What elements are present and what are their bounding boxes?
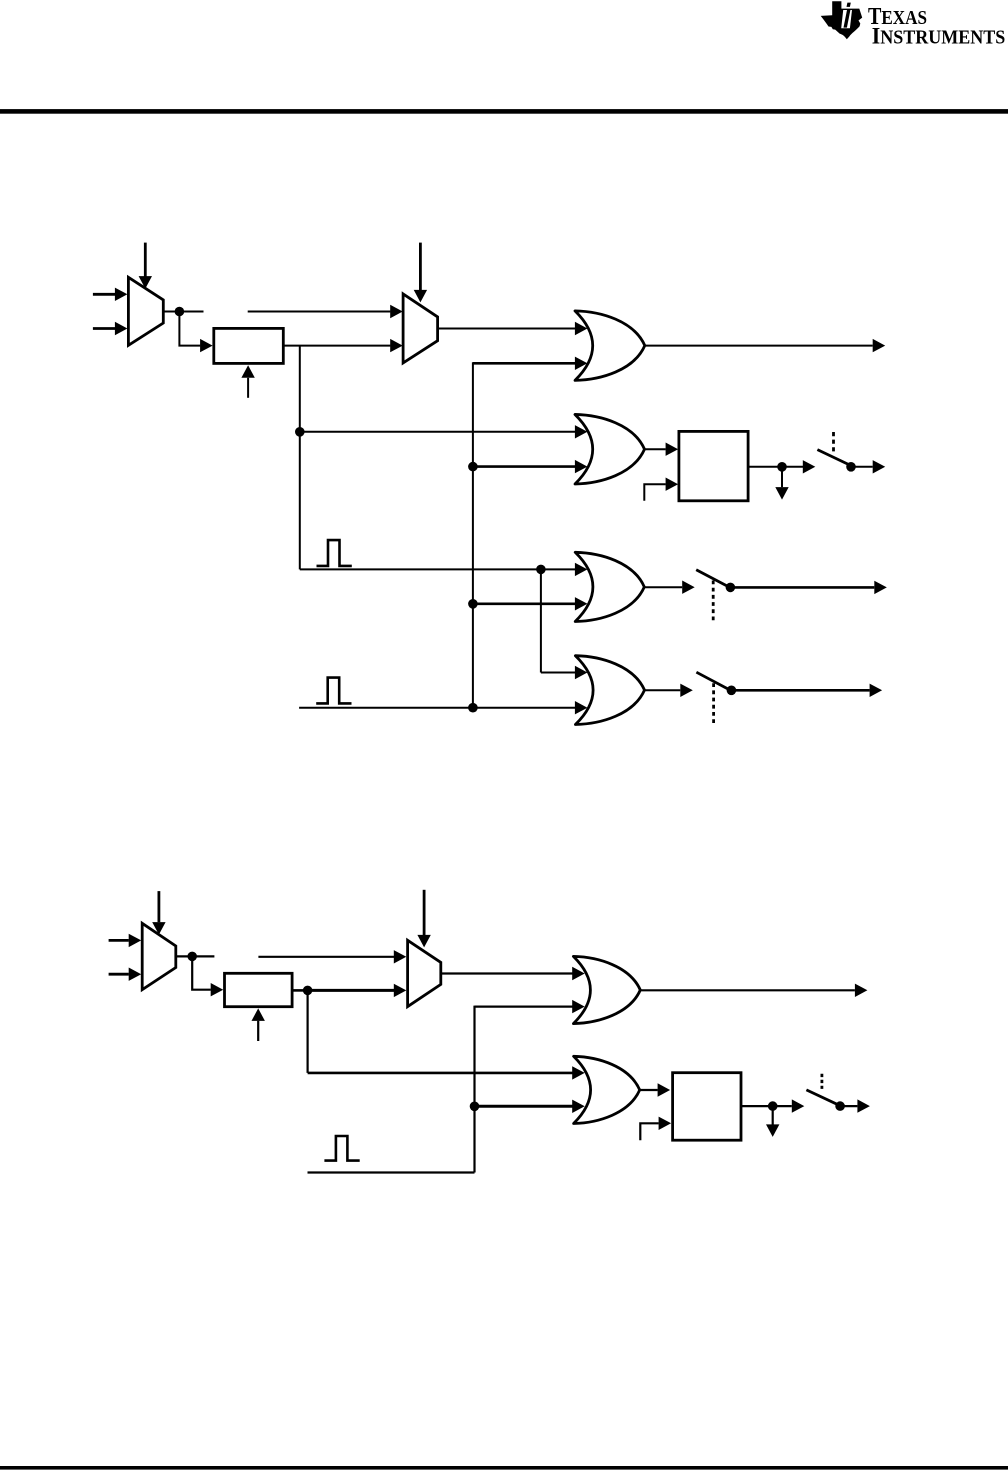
node A2 [187, 952, 197, 962]
node S1 out [846, 462, 856, 472]
wire pulse input 3 [308, 1171, 475, 1173]
mux U1 select arrow [139, 243, 152, 289]
node C1 [468, 462, 478, 472]
wire R1 out to U2 [283, 339, 402, 352]
switch S4 control dash [821, 1074, 824, 1089]
arrow E2 right [773, 1099, 805, 1112]
wire B2 into G4 [541, 666, 588, 679]
node S4 out [835, 1101, 845, 1111]
TI logo INSTRUMENTS text [872, 24, 1006, 50]
flip-flop F1 [679, 431, 748, 500]
header rule [0, 109, 1008, 114]
mux U3 input arrow 1 [109, 934, 142, 947]
wire U4 out to G5 [441, 967, 585, 980]
arrow E1 right [782, 460, 815, 473]
wire net H vertical [473, 1006, 475, 1173]
wire F2n to G6 [308, 1066, 585, 1079]
flip-flop F1 clock arrow [644, 478, 678, 501]
wire G5 output arrow [640, 984, 867, 997]
switch S3 blade [696, 672, 727, 689]
wire G3 output arrow [644, 581, 694, 594]
wire G2 to F1 [645, 443, 679, 456]
node S3 out [727, 686, 737, 696]
wire G6 to F2 [640, 1083, 670, 1096]
or-gate G1 [575, 311, 645, 381]
node E1 [777, 462, 787, 472]
wire U2 out to G1 [438, 322, 588, 335]
flip-flop F2 [673, 1073, 741, 1141]
wire B2 into G3 [541, 563, 588, 576]
wire net B to U2 [248, 305, 403, 318]
wire net B2 to G3 [300, 568, 541, 570]
arrow E2 down [766, 1106, 779, 1137]
arrow E1 down [775, 467, 788, 500]
wire R1 out down [299, 346, 301, 570]
mux U4 select arrow [417, 890, 430, 948]
wire F2n to U4 [308, 984, 407, 997]
register R1 clock arrow [241, 365, 254, 398]
pulse symbol P1 [317, 540, 352, 566]
TI logo ti cutout [841, 10, 852, 28]
mux U1 input arrow 1 [93, 288, 128, 301]
switch S1 control dash [832, 432, 835, 454]
mux U1 input arrow 2 [93, 322, 128, 335]
mux U2 select arrow [414, 243, 427, 303]
pulse symbol P2 [316, 678, 351, 704]
register R2 [225, 973, 293, 1006]
node C3 [468, 703, 478, 713]
mux U3 select arrow [152, 891, 165, 935]
wire G1 output [645, 339, 885, 352]
wire S4 output arrow [840, 1099, 870, 1112]
register R2 clock arrow [252, 1008, 265, 1041]
mux U4 [408, 940, 441, 1006]
node D1 [295, 427, 305, 437]
switch S1 blade [817, 450, 851, 466]
pulse symbol P3 [324, 1136, 359, 1161]
footer rule [0, 1466, 1008, 1470]
wire S2 output arrow [730, 581, 886, 594]
or-gate G3 [575, 552, 644, 621]
mux U3 input arrow 2 [109, 968, 142, 981]
mux U2 [403, 294, 438, 363]
register R1 [214, 328, 283, 363]
node A1 [175, 307, 185, 317]
wire U3 out stub [176, 955, 215, 957]
wire S1 output arrow [851, 460, 885, 473]
switch S2 control dash [712, 581, 715, 624]
wire net H corner to G5 [475, 1000, 585, 1013]
wire G4 output arrow [645, 684, 693, 697]
switch S2 blade [696, 570, 727, 587]
wire R2 out [292, 989, 308, 992]
TI logo i stroke [844, 9, 851, 28]
wire F1 output [748, 466, 782, 468]
wire B2 down [540, 569, 542, 672]
svg-text:INSTRUMENTS: INSTRUMENTS [872, 24, 1006, 50]
wire U1 out stub [163, 311, 203, 313]
wire D1 to G2 [300, 425, 588, 438]
wire H1 to G6 [475, 1100, 585, 1113]
wire S3 output arrow [731, 684, 882, 697]
switch S3 control dash [712, 683, 715, 726]
TI logo i dot [847, 3, 851, 7]
TI logo TEXAS text [868, 4, 927, 30]
or-gate G5 [573, 956, 640, 1023]
or-gate G2 [575, 414, 645, 484]
node C2 [468, 599, 478, 609]
wire pulse input 2 [299, 701, 587, 714]
wire C1 to G2 [473, 460, 588, 473]
node H1 [470, 1102, 480, 1112]
wire A2 to R2 [192, 956, 223, 996]
switch S4 blade [806, 1090, 840, 1106]
wire C2 to G3 [473, 597, 588, 610]
wire net C vertical [472, 362, 474, 707]
or-gate G6 [574, 1056, 640, 1123]
node E2 [768, 1101, 778, 1111]
node S2 out [726, 583, 736, 593]
mux U1 [128, 277, 163, 345]
mux U3 [142, 923, 176, 989]
flip-flop F2 clock arrow [640, 1117, 671, 1141]
wire F2n down [307, 990, 309, 1073]
node B2 [536, 565, 546, 575]
wire F2 output [741, 1105, 773, 1107]
TI logo Texas map [821, 1, 863, 39]
wire net top to U4 [258, 950, 406, 963]
wire net C corner to G1 [473, 357, 588, 370]
or-gate G4 [575, 656, 644, 725]
node F2n [303, 986, 313, 996]
wire A1 to R1 [179, 312, 212, 353]
